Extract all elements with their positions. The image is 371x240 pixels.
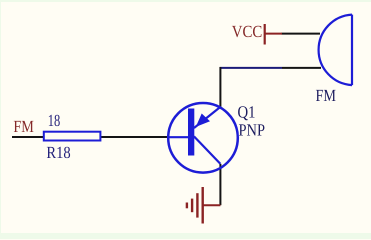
svg-text:VCC: VCC bbox=[232, 22, 262, 41]
svg-text:FM: FM bbox=[316, 86, 337, 105]
svg-text:18: 18 bbox=[48, 111, 61, 130]
svg-text:Q1: Q1 bbox=[238, 103, 256, 122]
svg-text:FM: FM bbox=[13, 117, 34, 136]
svg-text:R18: R18 bbox=[46, 143, 70, 162]
svg-text:PNP: PNP bbox=[239, 120, 266, 139]
